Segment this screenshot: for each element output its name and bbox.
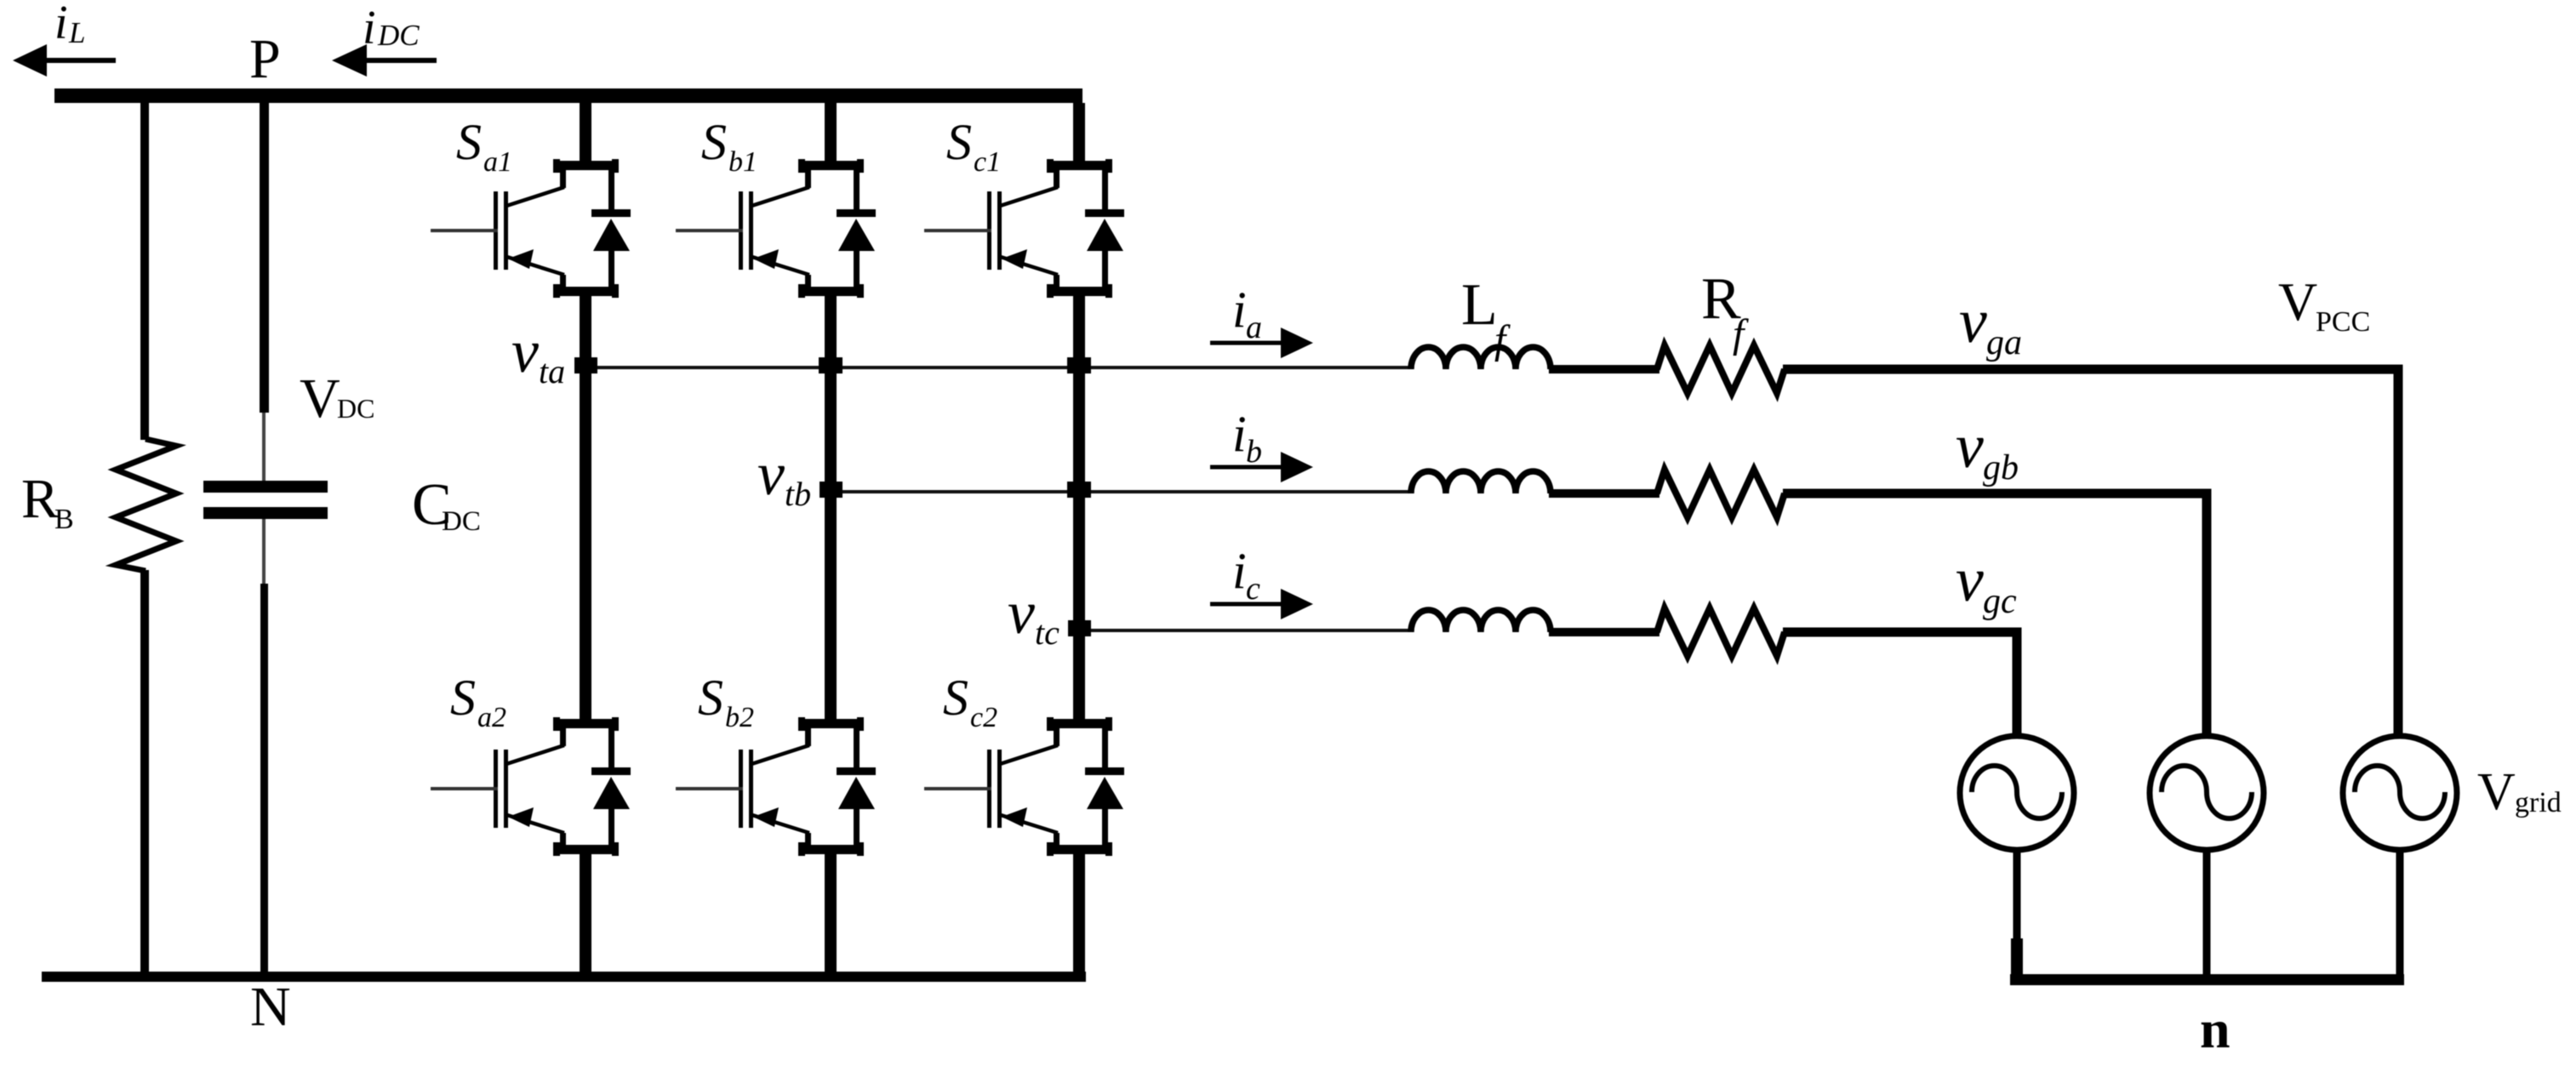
label Vgrid	[2477, 763, 2562, 821]
wire C between Lf and Rf	[1549, 628, 1659, 636]
neutral rail n	[2010, 974, 2404, 985]
current ib arrow	[1210, 452, 1313, 482]
svg-text:a: a	[1246, 310, 1262, 345]
svg-text:i: i	[363, 2, 376, 54]
svg-text:P: P	[249, 28, 281, 90]
IGBT Sa2	[431, 717, 631, 856]
AC source phase a	[2343, 736, 2457, 850]
label iDC	[363, 2, 420, 54]
label VDC	[300, 368, 374, 430]
svg-text:v: v	[1008, 579, 1035, 647]
capacitor CDC branch wire bottom thick	[260, 584, 268, 982]
svg-text:c1: c1	[974, 146, 1001, 178]
phase leg C middle wire	[1073, 296, 1085, 719]
label Sb1	[701, 114, 757, 178]
svg-text:V: V	[2278, 271, 2317, 332]
svg-text:grid: grid	[2515, 787, 2562, 818]
svg-text:S: S	[698, 670, 723, 726]
capacitor CDC top plate	[203, 481, 328, 493]
svg-text:ga: ga	[1986, 323, 2022, 362]
label vtb	[757, 440, 811, 513]
svg-text:a1: a1	[483, 146, 512, 178]
crossing leg C phase A	[1067, 357, 1091, 373]
svg-text:v: v	[1956, 545, 1984, 615]
crossing leg C phase B	[1067, 482, 1091, 498]
svg-text:n: n	[2200, 999, 2230, 1059]
svg-text:gc: gc	[1983, 582, 2017, 621]
label Sc1	[946, 114, 1001, 178]
wire B between Lf and Rf	[1549, 489, 1659, 498]
label iL	[54, 0, 85, 49]
svg-text:tb: tb	[785, 475, 811, 513]
node vta junction	[574, 357, 597, 373]
svg-text:a2: a2	[477, 702, 506, 733]
svg-text:b2: b2	[725, 702, 754, 733]
phase leg A lower wire	[580, 854, 591, 982]
wire A between Lf and Rf	[1549, 365, 1659, 373]
svg-text:L: L	[1461, 272, 1498, 338]
label Rf	[1701, 266, 1749, 356]
node vtb junction	[820, 482, 842, 498]
resistor RB zigzag	[116, 439, 176, 571]
source b bottom wire	[2203, 849, 2211, 980]
svg-text:tc: tc	[1035, 613, 1060, 652]
phase leg C lower wire	[1073, 854, 1085, 982]
resistor Rf phase C	[1657, 608, 1785, 656]
label CDC	[412, 472, 481, 538]
label ia	[1232, 282, 1262, 345]
IGBT Sc1	[924, 159, 1124, 298]
IGBT Sb2	[676, 717, 876, 856]
svg-text:S: S	[456, 114, 482, 170]
current iL arrow	[13, 44, 116, 77]
source a bottom wire	[2396, 849, 2404, 980]
AC source phase b	[2150, 736, 2264, 850]
svg-text:S: S	[943, 670, 968, 726]
svg-text:DC: DC	[377, 19, 420, 52]
svg-text:DC: DC	[442, 506, 481, 537]
phase B output wire thin	[835, 490, 1413, 493]
phase leg B middle wire	[825, 296, 837, 719]
svg-text:v: v	[757, 440, 785, 508]
capacitor CDC wire thin upper	[262, 413, 266, 481]
svg-text:V: V	[2477, 763, 2516, 821]
label vta	[511, 317, 565, 391]
svg-text:i: i	[1232, 406, 1247, 462]
svg-text:v: v	[1959, 287, 1987, 356]
svg-text:i: i	[1232, 282, 1247, 338]
IGBT Sb1	[676, 159, 876, 298]
node vtc junction	[1068, 620, 1091, 636]
source c bottom tab	[2011, 938, 2023, 981]
svg-text:c2: c2	[970, 702, 997, 733]
label Sa2	[450, 670, 506, 733]
current ia arrow	[1210, 328, 1313, 358]
svg-text:V: V	[300, 368, 340, 430]
svg-text:S: S	[946, 114, 972, 170]
phase leg B lower wire	[825, 854, 837, 982]
wire C from Rf to corner and down	[1783, 632, 2017, 737]
inductor Lf phase B	[1411, 471, 1551, 493]
svg-text:v: v	[1956, 412, 1984, 482]
label VPCC	[2278, 271, 2370, 338]
crossing leg B phase A	[819, 357, 842, 373]
phase C output wire thin	[1083, 629, 1413, 632]
current ic arrow	[1210, 589, 1313, 619]
svg-text:i: i	[1232, 543, 1247, 599]
svg-text:i: i	[54, 0, 68, 49]
svg-text:b1: b1	[728, 146, 757, 178]
label Lf	[1461, 272, 1511, 362]
label ic	[1232, 543, 1260, 607]
phase A output wire thin	[590, 366, 1413, 369]
label Sb2	[698, 670, 754, 733]
DC bus negative rail N	[42, 972, 1086, 982]
capacitor CDC branch wire top thick	[260, 103, 269, 413]
wire A from Rf to PCC corner and down	[1783, 369, 2398, 737]
svg-text:N: N	[250, 976, 291, 1038]
svg-text:v: v	[511, 317, 539, 385]
source c bottom wire	[2013, 849, 2021, 980]
svg-text:b: b	[1246, 434, 1262, 470]
svg-text:B: B	[54, 504, 74, 535]
svg-text:c: c	[1246, 571, 1260, 607]
AC source phase c	[1960, 736, 2074, 850]
label vga	[1959, 287, 2022, 362]
label vtc	[1008, 579, 1060, 652]
svg-text:PCC: PCC	[2316, 306, 2370, 338]
label Sa1	[456, 114, 512, 178]
svg-text:L: L	[68, 16, 85, 49]
inductor Lf phase C	[1411, 610, 1551, 632]
phase leg A upper wire	[580, 103, 591, 161]
resistor Rf phase A	[1657, 345, 1785, 393]
svg-text:R: R	[21, 468, 59, 530]
svg-text:gb: gb	[1983, 448, 2019, 488]
svg-text:S: S	[701, 114, 727, 170]
IGBT Sc2	[924, 717, 1124, 856]
phase leg B upper wire	[825, 103, 837, 161]
current iDC arrow	[332, 44, 437, 77]
resistor Rf phase B	[1657, 470, 1785, 517]
resistor RB wire bottom	[140, 570, 149, 982]
svg-text:S: S	[450, 670, 476, 726]
DC bus positive rail P	[54, 88, 1082, 103]
phase leg A middle wire	[580, 296, 591, 719]
svg-text:DC: DC	[337, 393, 374, 424]
label ib	[1232, 406, 1262, 470]
IGBT Sa1	[431, 159, 631, 298]
label vgb	[1956, 412, 2019, 488]
svg-text:ta: ta	[539, 352, 565, 391]
wire B from Rf to corner and down	[1783, 493, 2207, 737]
resistor RB branch wire top	[140, 103, 149, 440]
label vgc	[1956, 545, 2017, 621]
inductor Lf phase A	[1411, 347, 1551, 369]
svg-text:f: f	[1733, 311, 1749, 356]
phase leg C upper wire	[1073, 103, 1085, 161]
label RB	[21, 468, 74, 535]
capacitor CDC wire thin lower	[262, 519, 266, 584]
capacitor CDC bottom plate	[203, 507, 328, 519]
label Sc2	[943, 670, 997, 733]
